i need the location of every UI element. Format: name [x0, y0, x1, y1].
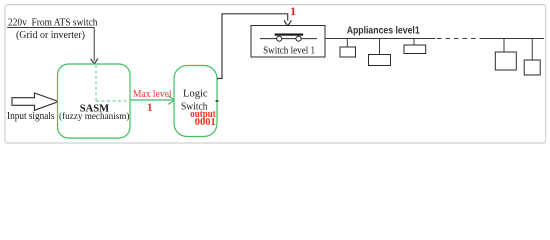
arrowhead into SASM top — [91, 58, 98, 63]
svg-text:Input signals: Input signals — [7, 111, 55, 122]
wire: appliances bus (dashed middle) — [437, 38, 480, 40]
appliance 2 box — [369, 55, 391, 66]
switch symbol: left contact circle — [277, 36, 282, 41]
switch symbol: actuator bar — [275, 34, 304, 36]
svg-text:Switch level 1: Switch level 1 — [263, 45, 315, 56]
svg-text:(fuzzy mechanism): (fuzzy mechanism) — [59, 111, 130, 122]
svg-text:Logic: Logic — [183, 89, 208, 100]
svg-text:Appliances level1: Appliances level1 — [347, 25, 420, 36]
wire: appliances bus (solid left) — [325, 38, 436, 40]
arrowhead into Logic Switch — [168, 96, 174, 105]
switch level 1 box S1 — [251, 26, 325, 58]
wire: drop to appliance 4 — [503, 39, 505, 53]
appliance 4 box — [495, 52, 516, 70]
svg-text:1: 1 — [290, 4, 296, 18]
logic switch box U1 — [174, 66, 217, 137]
svg-text:220v From ATS switch: 220v From ATS switch — [8, 16, 98, 28]
wire: SASM to Logic Switch (green) — [130, 99, 173, 101]
arrowhead into Switch level 1 — [284, 20, 291, 26]
svg-text:(Grid or inverter): (Grid or inverter) — [16, 30, 85, 41]
appliance 1 box — [340, 47, 356, 57]
wire: drop to appliance 5 — [531, 39, 533, 61]
wire: appliances bus (solid right) — [480, 38, 545, 40]
dashed node line (horizontal) inside SASM — [96, 100, 129, 102]
svg-text:0001: 0001 — [195, 117, 216, 128]
SASM box — [58, 64, 131, 138]
svg-text:1: 1 — [147, 100, 153, 114]
wire: drop to appliance 2 — [379, 39, 381, 55]
switch symbol: contact line — [260, 38, 317, 40]
wire: drop to appliance 1 — [346, 39, 348, 47]
switch symbol: right contact circle — [296, 36, 301, 41]
appliance 3 box — [404, 45, 426, 54]
dashed node line (vertical) inside SASM — [95, 65, 97, 101]
wire: ATS feed (underline + vertical drop) — [7, 28, 94, 62]
input signals block arrow — [12, 93, 59, 110]
svg-text:Max level: Max level — [133, 89, 172, 100]
wire: drop to appliance 3 — [413, 39, 415, 45]
node: logic box right-edge tick — [216, 100, 219, 102]
wire: Logic Switch to Switch level 1 — [217, 14, 288, 79]
appliance 5 box — [524, 60, 540, 75]
